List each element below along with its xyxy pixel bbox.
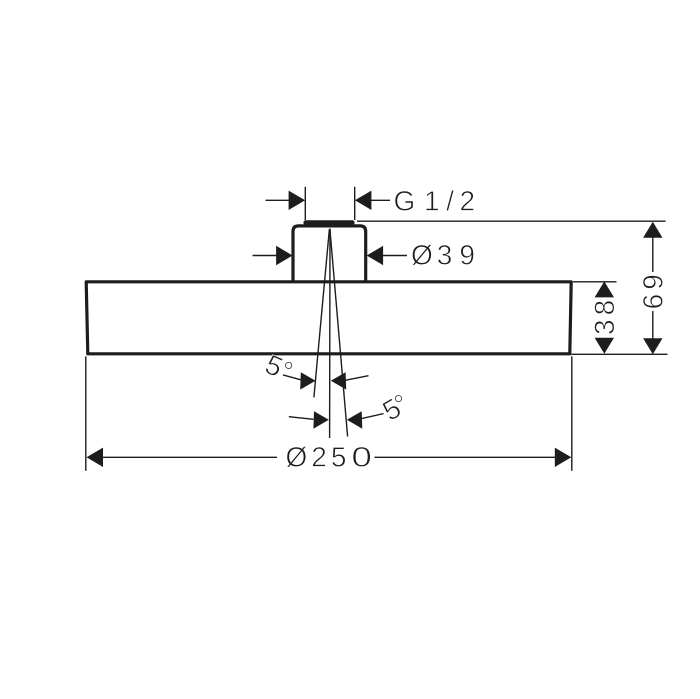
dimension Ø250 line and arrows (87, 448, 572, 467)
angle dimension upper arrows (283, 372, 369, 389)
dimension Ø39 left arrow (253, 246, 293, 265)
spray axis line center (329, 229, 331, 439)
svg-text:Ø25: Ø25 (286, 442, 351, 473)
extension line G1/2 left (304, 187, 306, 220)
dimension 69 arrows and line (643, 222, 662, 354)
dimension Ø39 right arrow (367, 246, 407, 265)
extension line disc bottom for 38 and 69 (572, 353, 668, 355)
svg-text:38: 38 (589, 296, 620, 335)
svg-text:Ø39: Ø39 (411, 240, 479, 271)
dimension G1/2 left arrow (266, 191, 306, 210)
spray line left 5deg (314, 229, 330, 397)
svg-text:G1/2: G1/2 (394, 186, 480, 217)
extension line Ø250 right (571, 356, 573, 471)
svg-text:0: 0 (351, 442, 377, 473)
spray line right 5deg (330, 229, 348, 437)
extension line disc top for 38 (573, 281, 617, 283)
dimension 38 arrows (595, 281, 614, 353)
angle dimension lower arrows (289, 411, 384, 428)
dimension G1/2 right arrow (355, 191, 390, 210)
svg-text:69: 69 (637, 270, 668, 309)
extension line stub top for 69 (357, 220, 666, 222)
stub thread lip (303, 220, 354, 225)
connector stub body (293, 226, 366, 283)
extension line G1/2 right (354, 187, 356, 220)
svg-text:5°: 5° (377, 388, 413, 427)
extension line Ø250 left (85, 356, 87, 471)
shower disc body (86, 282, 571, 354)
